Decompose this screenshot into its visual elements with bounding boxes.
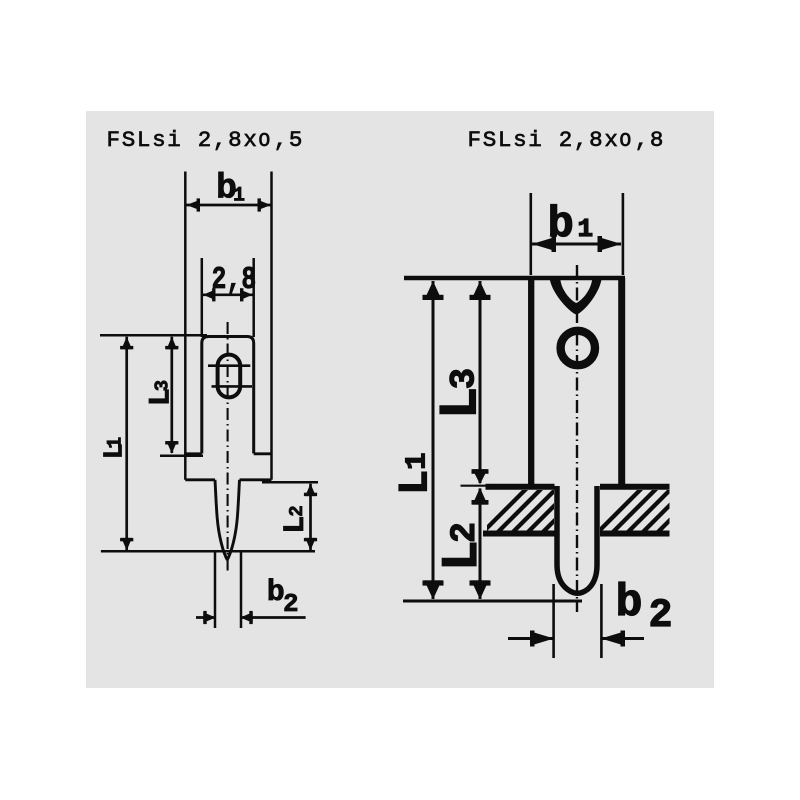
svg-text:2: 2	[649, 594, 673, 639]
svg-text:1: 1	[578, 214, 594, 244]
svg-text:FSLsi 2,8xO,5: FSLsi 2,8xO,5	[107, 127, 305, 153]
svg-text:L: L	[392, 470, 439, 495]
svg-text:3: 3	[444, 368, 485, 389]
svg-text:L: L	[432, 387, 493, 419]
svg-text:1: 1	[104, 437, 127, 449]
svg-text:2: 2	[445, 522, 485, 543]
svg-text:2: 2	[286, 505, 308, 516]
svg-text:2,8: 2,8	[212, 261, 257, 298]
svg-text:1: 1	[233, 185, 245, 208]
svg-text:b: b	[616, 578, 643, 629]
svg-text:1: 1	[400, 452, 433, 469]
svg-text:FSLsi 2,8xO,8: FSLsi 2,8xO,8	[468, 127, 666, 153]
svg-text:3: 3	[152, 380, 174, 391]
svg-text:b: b	[548, 200, 574, 250]
svg-text:2: 2	[283, 589, 299, 619]
svg-text:L: L	[279, 516, 313, 534]
svg-text:b: b	[267, 576, 285, 610]
svg-text:L: L	[435, 540, 492, 571]
